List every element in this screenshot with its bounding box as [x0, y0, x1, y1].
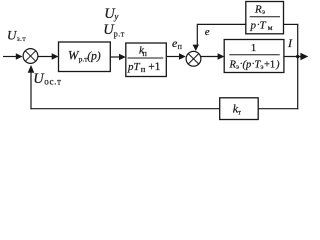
wire kp to S2 — [166, 56, 180, 58]
node Uoc.t label — [33, 71, 61, 87]
svg-text:I: I — [287, 36, 293, 50]
wire e branch horizontal to Re/pTm block — [197, 23, 246, 25]
junction dot — [296, 55, 299, 58]
wire right vertical branch — [297, 24, 299, 109]
wire input arrowhead — [16, 53, 23, 59]
svg-text:п: п — [141, 64, 146, 74]
svg-text:+1: +1 — [264, 60, 275, 71]
wire motor output — [284, 56, 302, 58]
svg-text:1: 1 — [251, 42, 256, 54]
arrowhead up into S1 — [28, 65, 35, 73]
wire feedback vertical up — [30, 72, 32, 109]
wire W to kp block — [110, 56, 120, 58]
svg-text:): ) — [275, 60, 280, 71]
block Re/pTm — [246, 2, 284, 34]
wire bottom feedback left — [30, 108, 219, 110]
arrowhead into W block — [52, 53, 59, 59]
block W regulator — [59, 42, 111, 72]
summing junction S2 — [186, 51, 201, 66]
svg-text:+1: +1 — [148, 61, 160, 73]
svg-text:р.т: р.т — [114, 30, 125, 39]
wire e branch vertical into S2 — [196, 24, 198, 45]
svg-text:ос.т: ос.т — [44, 77, 61, 87]
svg-text:p: p — [250, 20, 257, 32]
summing junction S1 — [23, 49, 38, 64]
node e_p label — [172, 36, 183, 51]
block motor 1/(Re(pTe+1)) — [224, 40, 284, 73]
svg-text:R: R — [254, 4, 262, 16]
arrowhead into kp block — [119, 54, 126, 60]
wire S1 to W block — [38, 56, 53, 58]
wire input — [3, 56, 17, 58]
svg-text:э: э — [262, 8, 265, 16]
svg-text:з.т: з.т — [17, 34, 27, 43]
svg-text:(p): (p) — [87, 50, 101, 62]
wire bottom feedback right — [258, 108, 298, 110]
svg-text:м: м — [268, 23, 273, 32]
svg-text:у: у — [113, 12, 118, 22]
node Uy label — [104, 6, 118, 22]
svg-text:т: т — [238, 108, 242, 117]
svg-text:pT: pT — [127, 61, 141, 73]
block kp transmitter — [126, 43, 167, 77]
node Ur.t label — [103, 22, 125, 38]
svg-text:п: п — [143, 49, 148, 58]
wire Re/pTm right to vertical — [284, 23, 299, 25]
arrowhead down into S2 — [193, 45, 199, 51]
node Uz.t label — [7, 27, 26, 43]
svg-text:(p: (p — [243, 60, 252, 71]
svg-text:п: п — [178, 42, 183, 51]
svg-text:T: T — [260, 20, 267, 32]
wire S2 to motor block — [201, 56, 219, 58]
svg-text:e: e — [205, 26, 210, 38]
output arrowhead — [300, 53, 308, 60]
block kt sensor — [220, 98, 259, 120]
arrowhead into S2 — [179, 53, 186, 59]
arrowhead into motor block — [218, 53, 225, 59]
